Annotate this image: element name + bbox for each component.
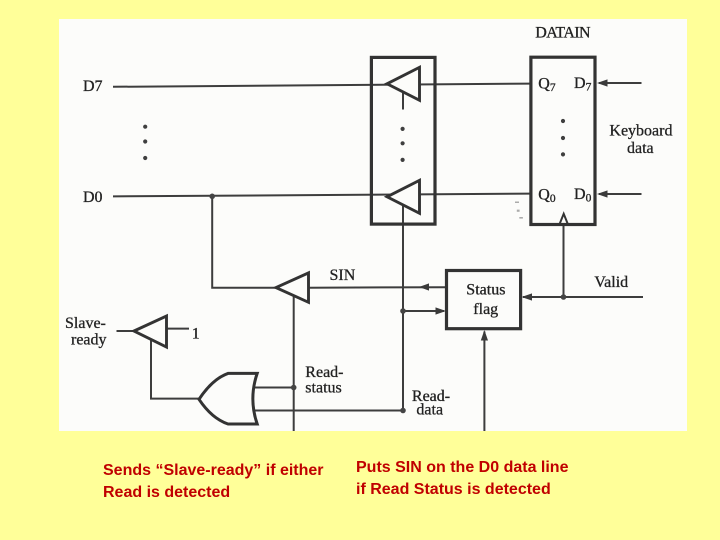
svg-text:data: data — [416, 402, 443, 419]
svg-text:SIN: SIN — [330, 267, 356, 284]
svg-text:DATAIN: DATAIN — [535, 25, 591, 42]
svg-text:Valid: Valid — [594, 274, 628, 291]
svg-text:D0: D0 — [574, 186, 592, 205]
svg-text:D0: D0 — [83, 189, 103, 206]
svg-text:Status: Status — [466, 281, 505, 298]
svg-text:1: 1 — [192, 326, 200, 343]
svg-text:Keyboard: Keyboard — [609, 123, 672, 140]
svg-text:D7: D7 — [83, 78, 103, 95]
svg-text:status: status — [305, 379, 341, 396]
svg-text:flag: flag — [473, 301, 498, 318]
svg-text:data: data — [627, 140, 654, 157]
svg-text:Q0: Q0 — [538, 187, 556, 206]
svg-text:ready: ready — [71, 331, 107, 348]
svg-text:Slave-: Slave- — [65, 315, 106, 332]
svg-text:D7: D7 — [574, 75, 592, 94]
svg-text:Q7: Q7 — [538, 76, 556, 95]
